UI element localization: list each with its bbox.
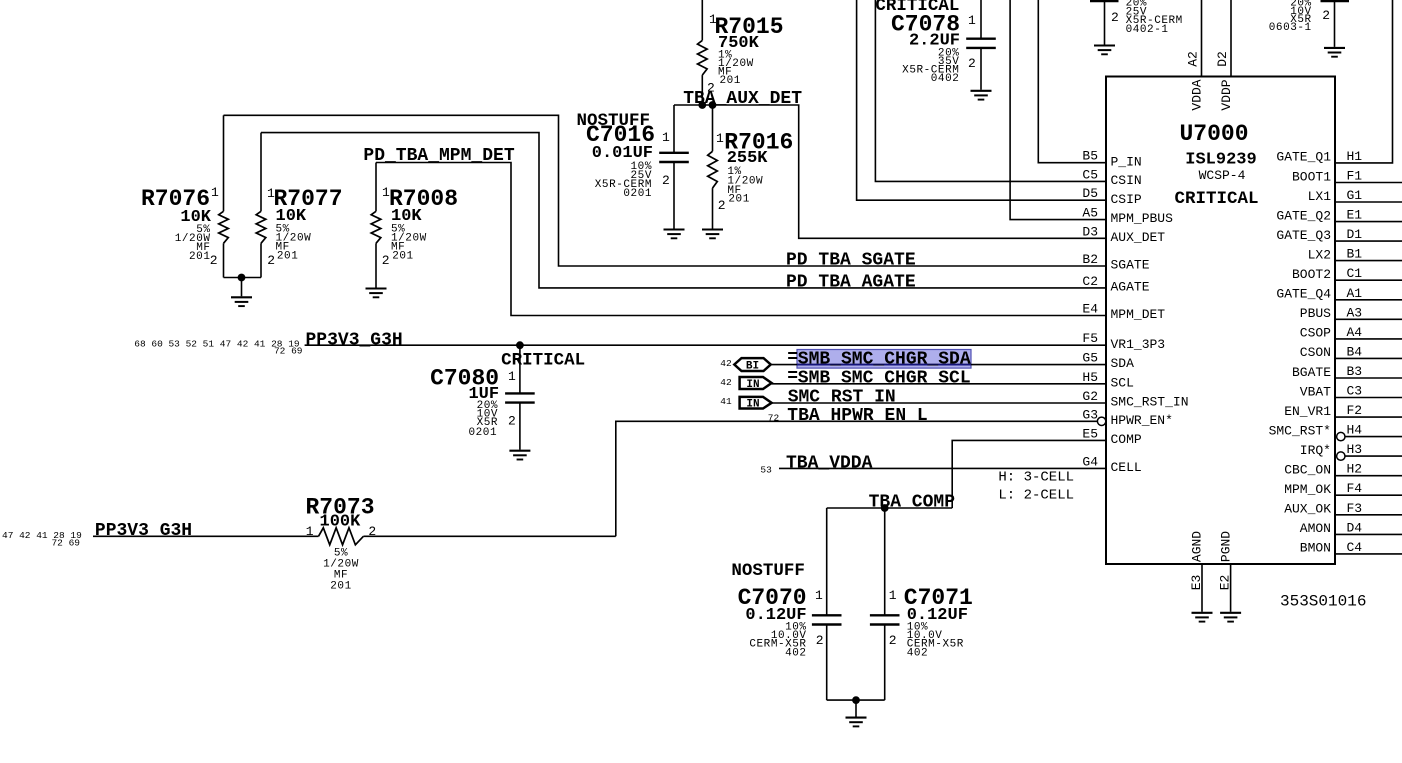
svg-text:SMB_SMC_CHGR_SDA: SMB_SMC_CHGR_SDA — [798, 350, 971, 370]
svg-text:H: 3-CELL: H: 3-CELL — [998, 470, 1074, 486]
svg-text:CBC_ON: CBC_ON — [1284, 463, 1331, 478]
svg-text:72 69: 72 69 — [274, 346, 303, 357]
svg-text:CSOP: CSOP — [1300, 326, 1331, 341]
pin C3 VBAT — [1300, 384, 1402, 400]
svg-text:1: 1 — [508, 369, 516, 384]
svg-text:GATE_Q2: GATE_Q2 — [1276, 208, 1331, 223]
net label SMC_RST_IN — [788, 388, 896, 408]
wire to CSIN C5 — [875, 0, 1106, 181]
resistor R7016 — [708, 105, 794, 229]
pin A5 MPM_PBUS — [1082, 206, 1173, 227]
svg-text:C2: C2 — [1082, 274, 1098, 289]
svg-text:H2: H2 — [1347, 462, 1363, 477]
ground (R7016) — [702, 230, 723, 239]
svg-text:A5: A5 — [1082, 206, 1098, 221]
pin C4 BMON — [1300, 540, 1402, 556]
svg-text:D4: D4 — [1347, 520, 1363, 535]
pin C5 CSIN — [1082, 167, 1141, 188]
svg-text:VBAT: VBAT — [1300, 384, 1331, 399]
svg-text:2: 2 — [368, 524, 376, 539]
svg-text:E3: E3 — [1189, 575, 1204, 591]
svg-text:C1: C1 — [1347, 266, 1363, 281]
svg-text:53: 53 — [760, 465, 772, 476]
wire net PD_TBA_MPM_DET (R7008 to MPM_DET E4) — [376, 163, 1106, 316]
ground (0603-1 cap) — [1324, 48, 1345, 57]
wire pin D2 — [1230, 0, 1232, 77]
ground (C7016) — [664, 230, 685, 239]
wire net PD_TBA_SGATE (R7076 to SGATE B2) — [224, 115, 1107, 266]
svg-text:D2: D2 — [1215, 51, 1230, 67]
ground (R7076/R7077) — [231, 297, 252, 306]
ground (R7008) — [366, 289, 387, 298]
svg-text:SMC_RST_IN: SMC_RST_IN — [788, 388, 896, 408]
svg-text:F5: F5 — [1082, 331, 1098, 346]
svg-text:CELL: CELL — [1111, 460, 1142, 475]
svg-text:201: 201 — [720, 75, 741, 87]
svg-text:G3: G3 — [1082, 407, 1098, 422]
capacitor C7071 — [870, 508, 973, 700]
net label SMB_SMC_CHGR_SCL — [787, 367, 970, 388]
svg-text:CRITICAL: CRITICAL — [501, 351, 585, 371]
svg-text:A1: A1 — [1347, 286, 1363, 301]
svg-text:BOOT1: BOOT1 — [1292, 169, 1331, 184]
svg-text:L: 2-CELL: L: 2-CELL — [998, 488, 1074, 504]
net highlight SMB_SMC_CHGR_SDA — [797, 350, 971, 369]
svg-text:IN: IN — [746, 399, 759, 411]
op-amp/IC U7000 ISL9239 body — [1106, 77, 1335, 565]
svg-text:A4: A4 — [1347, 325, 1363, 340]
label L: 2-CELL — [998, 488, 1074, 504]
junction C7080 on PP3V3_G3H — [516, 341, 524, 349]
pin F4 MPM_OK — [1284, 481, 1402, 497]
svg-text:TBA_VDDA: TBA_VDDA — [786, 453, 873, 473]
svg-text:PP3V3_G3H: PP3V3_G3H — [306, 330, 403, 350]
wire net TBA_COMP — [827, 507, 953, 509]
pin F5 VR1_3P3 — [1082, 331, 1165, 352]
capacitor C7078 — [875, 0, 995, 90]
svg-text:402: 402 — [785, 648, 806, 660]
svg-text:VDDA: VDDA — [1189, 79, 1204, 110]
svg-text:HPWR_EN*: HPWR_EN* — [1111, 413, 1173, 428]
svg-text:0402-1: 0402-1 — [1126, 24, 1169, 36]
svg-text:D3: D3 — [1082, 224, 1098, 239]
svg-text:1: 1 — [211, 185, 219, 200]
svg-text:BI: BI — [746, 361, 759, 373]
svg-text:MPM_PBUS: MPM_PBUS — [1111, 211, 1174, 226]
svg-text:F4: F4 — [1347, 481, 1363, 496]
ground (C7080) — [509, 451, 530, 460]
svg-text:B4: B4 — [1347, 344, 1363, 359]
pin G3 HPWR_EN* — [1082, 407, 1173, 428]
pin A2 VDDA — [1186, 51, 1205, 110]
svg-text:2: 2 — [1111, 10, 1119, 25]
svg-text:G4: G4 — [1082, 454, 1098, 469]
pin A3 PBUS — [1300, 305, 1402, 321]
pin D3 AUX_DET — [1082, 224, 1165, 245]
svg-text:G5: G5 — [1082, 351, 1098, 366]
svg-text:EN_VR1: EN_VR1 — [1284, 404, 1331, 419]
wire to P_IN B5 — [1038, 0, 1106, 163]
svg-text:E2: E2 — [1217, 575, 1232, 591]
svg-text:E1: E1 — [1347, 208, 1363, 223]
pin G5 SDA — [1082, 351, 1134, 372]
net label SMB_SMC_CHGR_SDA (selected) — [787, 348, 971, 370]
ground (E3 AGND) — [1192, 613, 1213, 622]
svg-text:42: 42 — [720, 358, 732, 369]
net label TBA_COMP — [869, 492, 956, 512]
svg-text:WCSP-4: WCSP-4 — [1199, 168, 1246, 183]
svg-text:D5: D5 — [1082, 186, 1098, 201]
pin E3 AGND with wire — [1189, 531, 1205, 612]
net label PP3V3_G3H (top) with pin list — [134, 330, 402, 356]
pin B4 CSON — [1300, 344, 1402, 360]
wire COMP E5 to TBA_COMP — [952, 440, 1106, 508]
wire net TBA_HPWR_EN_L (R7073 to HPWR_EN* G3) — [616, 421, 1098, 536]
pin E4 MPM_DET — [1082, 302, 1165, 323]
wire SMC_RST_IN G2 — [772, 402, 1106, 404]
resistor R7015 — [698, 0, 784, 105]
svg-text:BMON: BMON — [1300, 541, 1331, 556]
svg-text:P_IN: P_IN — [1111, 154, 1142, 169]
resistor R7077 — [256, 133, 342, 278]
wire to MPM_PBUS A5 — [1010, 0, 1106, 220]
svg-text:A2: A2 — [1186, 51, 1201, 67]
port IN (SMC_RST_IN) with pin 41 — [720, 396, 771, 411]
pin G4 CELL — [1082, 454, 1141, 475]
svg-text:BGATE: BGATE — [1292, 365, 1331, 380]
svg-text:VDDP: VDDP — [1219, 79, 1234, 110]
wire pin A2 — [1201, 0, 1203, 77]
capacitor C7070 — [731, 508, 841, 700]
wire R7076/R7077 ground join — [224, 278, 262, 297]
svg-text:MPM_OK: MPM_OK — [1284, 482, 1331, 497]
port BI (SMB_SMC_CHGR_SDA) with pin 42 — [720, 358, 770, 373]
svg-text:0201: 0201 — [468, 427, 497, 439]
pin B2 SGATE — [1082, 252, 1149, 273]
pin F3 AUX_OK — [1284, 501, 1402, 517]
pin A4 CSOP — [1300, 325, 1402, 341]
capacitor 0402-1 (top, partial) — [1090, 0, 1183, 45]
svg-text:2: 2 — [210, 253, 218, 268]
svg-text:1: 1 — [716, 131, 724, 146]
svg-text:GATE_Q3: GATE_Q3 — [1276, 228, 1331, 243]
net label PP3V3_G3H (bottom) with pin list — [2, 521, 192, 548]
svg-text:2: 2 — [889, 633, 897, 648]
svg-text:F1: F1 — [1347, 169, 1363, 184]
svg-text:PD_TBA_MPM_DET: PD_TBA_MPM_DET — [363, 146, 514, 166]
svg-text:H5: H5 — [1082, 370, 1098, 385]
svg-text:E4: E4 — [1082, 302, 1098, 317]
wire to CSIP D5 — [857, 0, 1106, 200]
svg-text:AGATE: AGATE — [1111, 280, 1150, 295]
svg-text:201: 201 — [728, 194, 749, 206]
svg-text:=: = — [787, 367, 798, 387]
svg-text:SMC_RST*: SMC_RST* — [1269, 423, 1331, 438]
svg-text:G2: G2 — [1082, 389, 1098, 404]
pin D5 CSIP — [1082, 186, 1142, 207]
svg-text:TBA_HPWR_EN_L: TBA_HPWR_EN_L — [787, 406, 927, 426]
svg-text:VR1_3P3: VR1_3P3 — [1111, 337, 1166, 352]
junction ground join — [852, 696, 860, 704]
svg-text:=: = — [787, 348, 798, 368]
svg-text:2: 2 — [662, 173, 670, 188]
pin F1 BOOT1 — [1292, 169, 1402, 185]
resistor R7008 — [371, 163, 458, 288]
svg-text:2: 2 — [382, 253, 390, 268]
wire C7070/C7071 ground join — [827, 700, 885, 717]
capacitor 0603-1 (top, partial) — [1269, 0, 1349, 47]
pin A1 GATE_Q4 — [1276, 286, 1402, 302]
wire GATE_Q1 H1 — [1335, 0, 1393, 163]
pin D4 AMON — [1300, 520, 1402, 536]
junction R7076/R7077 ground — [238, 274, 246, 282]
svg-text:201: 201 — [330, 581, 351, 593]
pin G1 LX1 — [1308, 188, 1402, 204]
label H: 3-CELL — [998, 470, 1074, 486]
label 353S01016 — [1280, 593, 1366, 611]
pin B5 P_IN — [1082, 149, 1141, 170]
svg-text:COMP: COMP — [1111, 432, 1142, 447]
svg-text:2: 2 — [816, 633, 824, 648]
net label TBA_AUX_DET — [683, 89, 802, 109]
svg-text:SMC_RST_IN: SMC_RST_IN — [1111, 395, 1189, 410]
junction TBA_COMP — [881, 504, 889, 512]
svg-text:GATE_Q4: GATE_Q4 — [1276, 287, 1331, 302]
svg-text:D1: D1 — [1347, 227, 1363, 242]
svg-text:SGATE: SGATE — [1111, 258, 1150, 273]
svg-text:201: 201 — [277, 251, 298, 263]
wire net TBA_AUX_DET (to AUX_DET D3) — [674, 105, 1106, 238]
svg-text:1: 1 — [662, 130, 670, 145]
net label PD_TBA_AGATE — [786, 272, 916, 292]
resistor R7073 — [306, 495, 377, 593]
svg-text:2: 2 — [718, 198, 726, 213]
svg-text:B5: B5 — [1082, 149, 1098, 164]
wire net PD_TBA_AGATE (R7077 to AGATE C2) — [261, 133, 1106, 288]
svg-text:72 69: 72 69 — [51, 537, 80, 548]
ground (C7070/C7071) — [846, 718, 867, 727]
svg-text:E5: E5 — [1082, 426, 1098, 441]
svg-text:353S01016: 353S01016 — [1280, 593, 1366, 611]
svg-text:F3: F3 — [1347, 501, 1363, 516]
svg-text:0201: 0201 — [623, 188, 652, 200]
svg-text:BOOT2: BOOT2 — [1292, 267, 1331, 282]
wire net TBA_VDDA (to CELL G4) — [779, 467, 1106, 469]
svg-text:0603-1: 0603-1 — [1269, 22, 1312, 34]
junction R7016 on TBA_AUX_DET — [709, 101, 717, 109]
svg-text:B2: B2 — [1082, 252, 1098, 267]
ground (0402-1 cap) — [1094, 46, 1115, 55]
wire SDA G5 — [771, 364, 1106, 366]
svg-text:MPM_DET: MPM_DET — [1111, 307, 1166, 322]
pin D1 GATE_Q3 — [1276, 227, 1402, 243]
svg-text:PD_TBA_SGATE: PD_TBA_SGATE — [786, 251, 916, 271]
pin C1 BOOT2 — [1292, 266, 1402, 282]
svg-text:CSIN: CSIN — [1111, 173, 1142, 188]
svg-text:AMON: AMON — [1300, 521, 1331, 536]
svg-text:H3: H3 — [1347, 442, 1363, 457]
svg-text:NOSTUFF: NOSTUFF — [731, 561, 805, 581]
capacitor C7016 — [576, 105, 688, 229]
svg-text:PD_TBA_AGATE: PD_TBA_AGATE — [786, 272, 916, 292]
svg-text:AUX_DET: AUX_DET — [1111, 230, 1166, 245]
svg-text:SMB_SMC_CHGR_SCL: SMB_SMC_CHGR_SCL — [798, 368, 971, 388]
svg-text:C3: C3 — [1347, 384, 1363, 399]
wire SCL H5 — [772, 383, 1106, 385]
pin H1 GATE_Q1 — [1276, 149, 1362, 165]
port IN (SMB_SMC_CHGR_SCL) with pin 42 — [720, 377, 771, 391]
svg-text:1: 1 — [815, 588, 823, 603]
ground (E2 PGND) — [1220, 613, 1241, 622]
svg-text:CRITICAL: CRITICAL — [1174, 189, 1258, 209]
svg-text:G1: G1 — [1347, 188, 1363, 203]
svg-text:A3: A3 — [1347, 305, 1363, 320]
svg-text:IRQ*: IRQ* — [1300, 443, 1331, 458]
svg-text:201: 201 — [392, 251, 413, 263]
net label PD_TBA_MPM_DET — [363, 146, 514, 166]
pin H4 SMC_RST* — [1269, 423, 1402, 441]
svg-text:CSIP: CSIP — [1111, 192, 1142, 207]
svg-text:PGND: PGND — [1219, 531, 1234, 562]
svg-text:AUX_OK: AUX_OK — [1284, 502, 1331, 517]
net label TBA_VDDA with pin 53 — [760, 453, 872, 475]
svg-text:H4: H4 — [1347, 423, 1363, 438]
svg-text:42: 42 — [720, 377, 732, 388]
svg-text:B3: B3 — [1347, 364, 1363, 379]
pin B3 BGATE — [1292, 364, 1402, 380]
svg-text:2: 2 — [267, 253, 275, 268]
pin E5 COMP — [1082, 426, 1142, 447]
wire net PP3V3_G3H (to VR1_3P3 F5) — [305, 344, 1106, 346]
resistor R7076 — [141, 115, 228, 277]
svg-text:100K: 100K — [320, 513, 362, 532]
pin C2 AGATE — [1082, 274, 1149, 295]
pin B1 LX2 — [1308, 247, 1402, 263]
svg-text:AGND: AGND — [1190, 531, 1205, 562]
svg-text:F2: F2 — [1347, 403, 1363, 418]
svg-text:PBUS: PBUS — [1300, 306, 1331, 321]
pin H3 IRQ* — [1300, 442, 1402, 460]
svg-text:LX2: LX2 — [1308, 247, 1331, 262]
capacitor C7080 — [430, 345, 535, 450]
net label TBA_HPWR_EN_L with pin 72 — [768, 406, 928, 426]
pin E2 PGND with wire — [1217, 531, 1233, 612]
net label PD_TBA_SGATE — [786, 251, 916, 271]
svg-text:C4: C4 — [1347, 540, 1363, 555]
svg-text:GATE_Q1: GATE_Q1 — [1276, 150, 1331, 165]
svg-text:SCL: SCL — [1111, 375, 1134, 390]
pin H5 SCL — [1082, 370, 1134, 391]
svg-text:CSON: CSON — [1300, 345, 1331, 360]
svg-text:U7000: U7000 — [1179, 121, 1248, 147]
svg-text:ISL9239: ISL9239 — [1185, 151, 1256, 170]
svg-text:41: 41 — [720, 396, 732, 407]
pin F2 EN_VR1 — [1284, 403, 1402, 419]
svg-text:C5: C5 — [1082, 167, 1098, 182]
svg-text:402: 402 — [907, 648, 928, 660]
wire net PP3V3_G3H (bottom, R7073) — [93, 535, 616, 537]
svg-text:H1: H1 — [1347, 149, 1363, 164]
pin D2 VDDP — [1215, 51, 1234, 110]
label CRITICAL (C7080) — [501, 351, 585, 371]
pin E1 GATE_Q2 — [1276, 208, 1402, 224]
svg-text:2: 2 — [1322, 8, 1330, 23]
svg-text:SDA: SDA — [1111, 356, 1135, 371]
svg-text:TBA_COMP: TBA_COMP — [869, 492, 956, 512]
svg-text:B1: B1 — [1347, 247, 1363, 262]
junction R7015 on TBA_AUX_DET — [698, 101, 706, 109]
svg-text:2: 2 — [508, 414, 516, 429]
svg-text:72: 72 — [768, 412, 780, 423]
ground (C7078) — [971, 91, 992, 100]
svg-text:LX1: LX1 — [1308, 189, 1332, 204]
svg-text:2: 2 — [968, 56, 976, 71]
svg-text:IN: IN — [746, 379, 759, 391]
svg-text:1: 1 — [306, 524, 314, 539]
svg-text:TBA_AUX_DET: TBA_AUX_DET — [683, 89, 802, 109]
svg-text:201: 201 — [189, 251, 210, 263]
svg-text:1: 1 — [889, 588, 897, 603]
svg-text:0402: 0402 — [931, 73, 960, 85]
svg-text:PP3V3_G3H: PP3V3_G3H — [95, 521, 192, 541]
pin G2 SMC_RST_IN — [1082, 389, 1188, 410]
svg-text:1: 1 — [968, 13, 976, 28]
pin H2 CBC_ON — [1284, 462, 1402, 478]
